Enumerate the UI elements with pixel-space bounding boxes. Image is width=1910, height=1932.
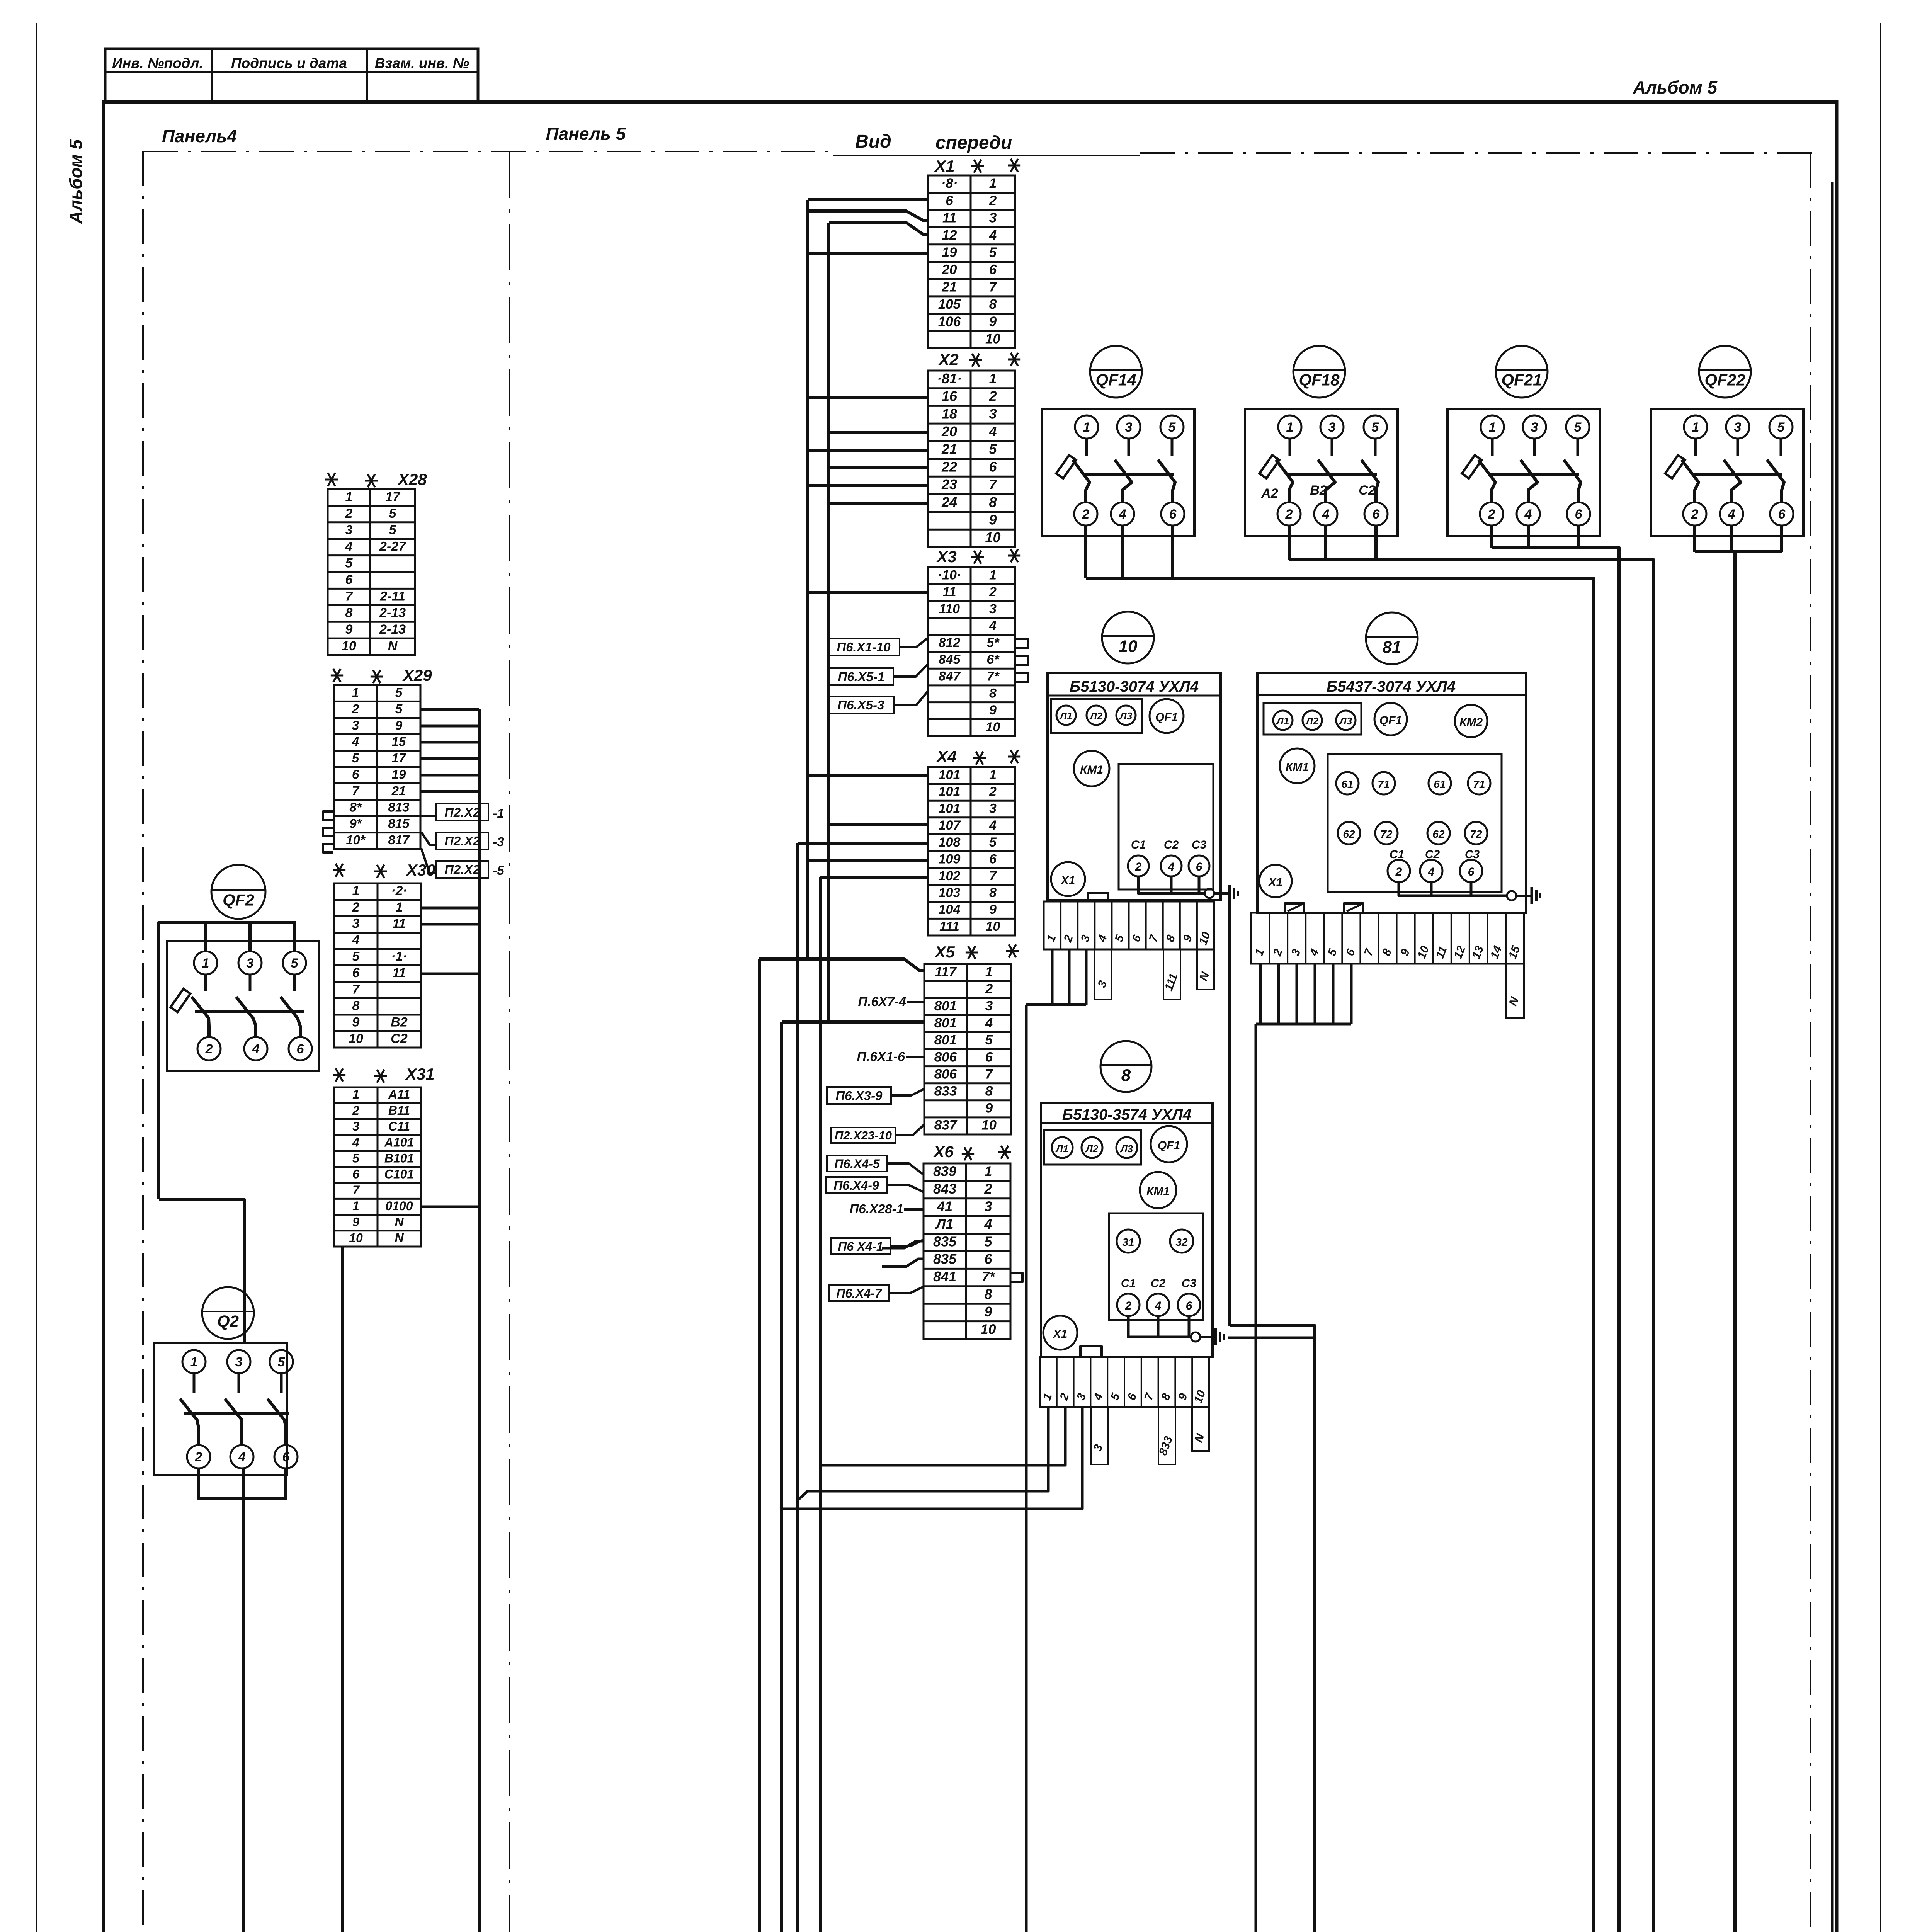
wires device 8 cells 1-3 to trunks — [798, 1407, 1048, 1500]
svg-text:3: 3 — [989, 211, 997, 226]
device 8 tag N — [1192, 1407, 1209, 1451]
svg-text:6: 6 — [352, 767, 359, 782]
device 81 breaker QF1 — [1374, 703, 1407, 735]
svg-text:9: 9 — [345, 622, 353, 637]
device 81 terminal 71a — [1373, 772, 1395, 794]
svg-text:8: 8 — [1121, 1066, 1131, 1085]
svg-text:15: 15 — [392, 735, 406, 749]
svg-text:32: 32 — [1175, 1236, 1188, 1248]
svg-text:КМ1: КМ1 — [1146, 1185, 1170, 1198]
svg-text:4: 4 — [1168, 861, 1175, 873]
svg-text:3: 3 — [989, 801, 997, 816]
QF18 pin 4 — [1314, 502, 1337, 526]
svg-text:6: 6 — [989, 459, 997, 474]
svg-text:107: 107 — [939, 818, 961, 833]
wires QF21 pins down — [1490, 526, 1493, 548]
svg-text:·2·: ·2· — [391, 884, 407, 898]
svg-text:N: N — [388, 639, 398, 653]
terminal table X1 — [928, 175, 1015, 348]
svg-text:Л3: Л3 — [1120, 1143, 1133, 1155]
wire riser to К7 — [819, 877, 822, 1932]
svg-text:·81·: ·81· — [937, 371, 962, 386]
svg-text:3: 3 — [352, 1119, 359, 1133]
device 81 terminal 61b — [1429, 772, 1451, 794]
QF18 pin 3 — [1320, 415, 1344, 439]
wire horizontal from QF22 to 16-Н1 riser — [1695, 550, 1782, 553]
X29 leader tags П2.Х2 — [421, 816, 436, 816]
svg-text:71: 71 — [1378, 778, 1390, 790]
svg-text:5: 5 — [291, 956, 299, 971]
svg-text:С2: С2 — [1151, 1277, 1166, 1290]
terminal table X4 — [928, 767, 1015, 935]
device 10 tag 111 — [1163, 949, 1180, 1000]
branch X2 row5 — [808, 449, 928, 452]
svg-text:101: 101 — [939, 801, 961, 816]
QF21 switch blades — [1478, 460, 1495, 502]
svg-text:Б5130-3574 УХЛ4: Б5130-3574 УХЛ4 — [1062, 1106, 1191, 1123]
svg-text:X1: X1 — [1053, 1328, 1068, 1340]
QF21 pin 1 — [1481, 415, 1504, 439]
svg-text:6: 6 — [1196, 861, 1202, 873]
device 8 tag 833 — [1158, 1407, 1175, 1464]
device 81 strip jumpers — [1285, 903, 1304, 913]
svg-text:12: 12 — [942, 228, 957, 243]
svg-text:3: 3 — [985, 998, 993, 1014]
svg-text:7: 7 — [989, 279, 997, 294]
svg-text:2: 2 — [1488, 507, 1495, 522]
svg-text:10: 10 — [981, 1118, 997, 1133]
branch X5 row1 — [759, 959, 924, 971]
svg-text:4: 4 — [989, 818, 997, 833]
svg-text:61: 61 — [1341, 778, 1353, 790]
svg-text:5: 5 — [395, 702, 403, 716]
svg-text:105: 105 — [938, 297, 961, 312]
wire horizontal H_b from QF18 to 312 riser — [1289, 560, 1654, 1932]
svg-text:5: 5 — [1777, 420, 1785, 435]
wire device 81 cell 4 stub — [1314, 964, 1316, 1024]
svg-text:Б5130-3074 УХЛ4: Б5130-3074 УХЛ4 — [1070, 678, 1199, 695]
svg-text:845: 845 — [939, 652, 961, 667]
svg-text:1: 1 — [1083, 420, 1090, 435]
svg-text:2: 2 — [1691, 507, 1699, 522]
svg-text:7: 7 — [352, 1183, 360, 1197]
svg-text:10*: 10* — [346, 833, 366, 847]
wires QF18 pins down — [1288, 526, 1291, 560]
device 8 terminal 4 — [1147, 1294, 1169, 1316]
svg-text:3: 3 — [989, 602, 997, 616]
branch X4 row1 — [808, 774, 928, 777]
svg-text:17: 17 — [392, 751, 406, 765]
device 81 terminal 62a — [1338, 822, 1360, 844]
svg-text:2-27: 2-27 — [379, 539, 406, 554]
svg-text:24: 24 — [941, 494, 957, 510]
svg-text:6: 6 — [1575, 507, 1583, 522]
device 81 inner unit box — [1328, 754, 1502, 892]
lamp Л2 — [1303, 711, 1322, 730]
svg-text:КМ1: КМ1 — [1080, 764, 1103, 776]
wire trunk A (bundle) — [806, 200, 809, 959]
terminal table X30 — [334, 883, 421, 1048]
device 10 terminal 6 — [1189, 855, 1209, 876]
svg-text:5: 5 — [352, 949, 360, 964]
svg-text:-1: -1 — [493, 806, 504, 820]
svg-text:6: 6 — [1186, 1299, 1192, 1312]
svg-text:С101: С101 — [384, 1167, 414, 1181]
branch X2 row8 — [829, 502, 928, 505]
svg-text:3: 3 — [984, 1198, 992, 1214]
leader tag П6.X5-3 — [828, 696, 894, 713]
device 8 tag 3 — [1091, 1407, 1108, 1464]
svg-text:9: 9 — [395, 718, 403, 732]
svg-text:841: 841 — [933, 1269, 956, 1284]
device 8 strip jumper 3-4 — [1080, 1346, 1102, 1357]
svg-text:6: 6 — [989, 852, 997, 866]
svg-text:10: 10 — [1119, 637, 1138, 656]
terminal table X3 — [928, 567, 1015, 736]
svg-text:QF22: QF22 — [1704, 371, 1745, 389]
svg-text:3: 3 — [235, 1355, 243, 1369]
circuit breaker QF21 balloon — [1496, 346, 1548, 398]
svg-text:Л2: Л2 — [1305, 715, 1319, 727]
svg-text:7*: 7* — [986, 669, 1000, 684]
terminal table X28 header — [325, 473, 338, 486]
svg-text:С2: С2 — [391, 1031, 408, 1046]
device 81 contactor КМ1 — [1280, 748, 1315, 783]
QF22 pin 5 — [1769, 415, 1793, 439]
svg-text:3: 3 — [1328, 420, 1336, 435]
branch X4 row6 — [808, 859, 928, 862]
QF14 pin 5 — [1160, 415, 1184, 439]
svg-text:Взам. инв. №: Взам. инв. № — [375, 55, 469, 71]
svg-text:2: 2 — [988, 388, 997, 404]
svg-text:N: N — [395, 1231, 404, 1245]
svg-text:QF1: QF1 — [1155, 711, 1178, 724]
svg-text:2: 2 — [989, 585, 997, 599]
svg-text:101: 101 — [939, 767, 961, 782]
svg-text:31: 31 — [1122, 1236, 1134, 1248]
svg-text:X5: X5 — [934, 943, 955, 961]
wires QF14 pins down — [1084, 526, 1087, 578]
QF21 pin 3 — [1523, 415, 1546, 439]
svg-text:В101: В101 — [384, 1151, 414, 1165]
svg-text:QF1: QF1 — [1379, 714, 1402, 727]
device balloon 81 — [1366, 612, 1418, 664]
device 10 contactor КМ1 — [1074, 751, 1109, 786]
svg-text:843: 843 — [933, 1181, 956, 1197]
wire device 8 PE to 10-Н1 riser — [1228, 1337, 1315, 1339]
svg-text:19: 19 — [942, 245, 957, 260]
QF18 pin 6 — [1364, 502, 1388, 526]
terminal table X6 — [924, 1163, 1010, 1339]
svg-text:6: 6 — [946, 193, 953, 208]
leader tag П2.Х23-10 — [831, 1128, 896, 1143]
circuit breaker Q2 box — [154, 1343, 287, 1475]
lamp Л1 — [1052, 1137, 1073, 1158]
QF22 pin 1 — [1684, 415, 1707, 439]
svg-text:Альбом 5: Альбом 5 — [1633, 77, 1718, 97]
svg-text:П2.Х2: П2.Х2 — [444, 834, 480, 848]
svg-text:Q2: Q2 — [217, 1312, 239, 1331]
svg-text:QF2: QF2 — [223, 891, 254, 910]
svg-text:6: 6 — [1373, 507, 1380, 522]
wires X30 rows to riser — [422, 907, 479, 910]
branch X1 row4 — [829, 223, 928, 235]
QF22 pin 2 — [1683, 502, 1706, 526]
svg-text:20: 20 — [942, 262, 957, 277]
device 10 breaker QF1 — [1150, 699, 1184, 733]
svg-text:КМ1: КМ1 — [1286, 761, 1309, 774]
lamp Л1 — [1056, 706, 1076, 725]
svg-text:2-13: 2-13 — [379, 622, 406, 637]
wire riser 2023 — [780, 1022, 783, 1932]
svg-text:9: 9 — [989, 314, 997, 329]
svg-text:5: 5 — [989, 835, 997, 850]
svg-text:7: 7 — [989, 476, 997, 492]
lamp Л3 — [1336, 711, 1356, 730]
QF21 pin 4 — [1517, 502, 1540, 526]
svg-text:5: 5 — [984, 1233, 992, 1249]
svg-text:815: 815 — [388, 816, 410, 831]
svg-text:С3: С3 — [1192, 838, 1207, 851]
svg-text:П6.Х3-9: П6.Х3-9 — [836, 1088, 883, 1103]
underline Вид спереди — [833, 155, 1140, 156]
svg-text:X1: X1 — [1060, 874, 1075, 887]
outer sheet border — [36, 23, 37, 1932]
QF14 pin 3 — [1117, 415, 1140, 439]
svg-text:801: 801 — [934, 998, 957, 1014]
svg-text:4: 4 — [984, 1216, 992, 1232]
svg-text:2: 2 — [989, 784, 997, 799]
svg-text:5: 5 — [389, 506, 397, 521]
QF18 pin 2 — [1277, 502, 1301, 526]
branch X2 row2 — [808, 396, 928, 399]
svg-text:2: 2 — [984, 1181, 992, 1197]
leader tag П6.Х3-9 — [827, 1087, 891, 1104]
wire QF2 to Q2 link — [159, 1199, 244, 1343]
svg-text:3: 3 — [352, 917, 360, 931]
svg-text:П2.Х2: П2.Х2 — [444, 805, 480, 820]
wires X6 rows 5-6 from left — [882, 1241, 924, 1248]
terminal table X28 — [328, 489, 415, 655]
svg-text:П2.Х2: П2.Х2 — [444, 862, 480, 877]
svg-text:5: 5 — [278, 1355, 286, 1369]
svg-text:П6.Х4-9: П6.Х4-9 — [833, 1179, 879, 1192]
svg-text:9: 9 — [985, 1101, 993, 1116]
svg-text:839: 839 — [933, 1163, 956, 1179]
svg-text:837: 837 — [934, 1118, 958, 1133]
svg-text:8: 8 — [984, 1286, 992, 1302]
svg-text:847: 847 — [939, 669, 961, 684]
svg-text:5: 5 — [989, 441, 997, 457]
wire riser to 10-К2 — [1025, 1005, 1028, 1932]
svg-text:7*: 7* — [981, 1269, 995, 1284]
svg-text:10: 10 — [342, 639, 356, 653]
svg-text:2: 2 — [352, 1104, 359, 1117]
terminal table X29 — [334, 685, 420, 849]
svg-text:6: 6 — [989, 262, 997, 277]
device 10 terminal 2 — [1128, 855, 1149, 876]
leader tag П6 Х4-1 — [831, 1238, 890, 1254]
svg-text:8: 8 — [345, 605, 353, 620]
svg-text:2: 2 — [195, 1450, 202, 1464]
device 81 tag N — [1506, 964, 1524, 1018]
wire riser to 10-Н1 — [1230, 1326, 1315, 1932]
svg-text:0100: 0100 — [385, 1199, 413, 1213]
svg-text:61: 61 — [1434, 778, 1446, 790]
svg-text:2: 2 — [1395, 866, 1402, 878]
svg-text:С11: С11 — [388, 1119, 410, 1133]
svg-text:1: 1 — [984, 1163, 992, 1179]
svg-text:4: 4 — [1155, 1299, 1162, 1312]
svg-text:7: 7 — [352, 784, 360, 798]
svg-text:4: 4 — [1322, 507, 1330, 522]
lamp Л3 — [1116, 706, 1136, 725]
svg-text:9: 9 — [989, 512, 997, 528]
svg-text:1: 1 — [190, 1355, 198, 1369]
svg-text:5*: 5* — [986, 635, 1000, 650]
svg-text:1: 1 — [989, 767, 997, 782]
QF14 pin 2 — [1074, 502, 1097, 526]
svg-text:4: 4 — [352, 735, 359, 749]
svg-text:2: 2 — [1125, 1299, 1132, 1312]
svg-text:806: 806 — [934, 1066, 957, 1082]
svg-text:9: 9 — [984, 1304, 992, 1320]
svg-text:Панель 5: Панель 5 — [546, 124, 626, 144]
lamp Л2 — [1082, 1137, 1102, 1158]
svg-text:6: 6 — [1468, 866, 1475, 878]
branch X1 row5 — [808, 252, 928, 255]
wire 16-Н1 riser — [1733, 552, 1737, 1932]
svg-text:806: 806 — [934, 1049, 957, 1065]
wire riser to 8-К2 — [758, 959, 761, 1932]
svg-text:72: 72 — [1470, 828, 1482, 840]
Q2 pins 1 3 5 — [182, 1350, 206, 1373]
terminal table X5 — [924, 964, 1011, 1134]
svg-text:102: 102 — [939, 869, 961, 883]
svg-text:19: 19 — [392, 767, 406, 782]
svg-text:Вид: Вид — [855, 131, 891, 152]
svg-text:Инв. №подл.: Инв. №подл. — [112, 55, 203, 71]
svg-text:1: 1 — [396, 900, 403, 915]
svg-text:5: 5 — [352, 1151, 360, 1165]
device 81 terminal 4 — [1420, 860, 1442, 882]
svg-text:С1: С1 — [1121, 1277, 1136, 1290]
wire riser 2065 — [796, 843, 799, 1932]
svg-text:72: 72 — [1380, 828, 1393, 840]
svg-text:2: 2 — [989, 193, 997, 208]
circuit breaker QF14 box — [1042, 409, 1194, 536]
device 8 X1 connector — [1043, 1316, 1077, 1350]
svg-text:3: 3 — [989, 406, 997, 422]
svg-text:9*: 9* — [349, 816, 362, 831]
svg-text:3: 3 — [352, 718, 359, 732]
svg-text:-3: -3 — [493, 835, 504, 849]
svg-text:1: 1 — [989, 176, 997, 191]
terminal table X31 header — [333, 1068, 345, 1082]
cabinet outline top (dash-dot) — [143, 151, 833, 152]
svg-text:9: 9 — [989, 703, 997, 718]
svg-text:4: 4 — [352, 933, 360, 947]
svg-text:2-13: 2-13 — [379, 605, 406, 620]
svg-text:10: 10 — [980, 1321, 996, 1337]
svg-text:Л1: Л1 — [1059, 710, 1072, 722]
branch X3 row2 — [808, 591, 928, 594]
device 81 terminal 71b — [1468, 772, 1490, 794]
svg-text:X28: X28 — [397, 470, 427, 488]
svg-text:Подпись и дата: Подпись и дата — [231, 55, 347, 71]
svg-text:Альбом 5: Альбом 5 — [66, 139, 86, 224]
circuit breaker QF22 balloon — [1699, 346, 1751, 398]
svg-text:7: 7 — [989, 869, 997, 883]
svg-text:X6: X6 — [933, 1143, 954, 1161]
device box 8 Б5130-3574 УХЛ4 — [1041, 1103, 1213, 1357]
svg-text:X2: X2 — [938, 350, 958, 369]
svg-text:7: 7 — [352, 982, 361, 997]
svg-text:103: 103 — [939, 886, 961, 900]
svg-text:Л1: Л1 — [1055, 1143, 1068, 1155]
svg-text:1: 1 — [989, 371, 997, 386]
device 8 terminal 31 — [1117, 1230, 1140, 1253]
svg-text:X1: X1 — [1268, 876, 1283, 889]
svg-text:X1: X1 — [934, 157, 954, 175]
svg-text:817: 817 — [388, 833, 410, 847]
X6 connector stub row 7 — [1011, 1273, 1022, 1282]
svg-text:833: 833 — [934, 1083, 957, 1099]
svg-text:5: 5 — [395, 685, 403, 700]
svg-text:1: 1 — [352, 685, 359, 700]
svg-text:QF18: QF18 — [1299, 371, 1340, 389]
svg-text:2: 2 — [352, 702, 359, 716]
QF2 pins 1 3 5 — [194, 951, 217, 975]
svg-text:6: 6 — [985, 1049, 993, 1065]
svg-text:3: 3 — [247, 956, 254, 971]
device 8 terminal 2 — [1117, 1294, 1140, 1316]
terminal table X30 header — [333, 864, 345, 877]
svg-text:101: 101 — [939, 784, 961, 799]
svg-text:-5: -5 — [493, 863, 504, 878]
QF18 pin 5 — [1364, 415, 1387, 439]
svg-text:QF21: QF21 — [1501, 371, 1542, 389]
svg-text:3: 3 — [345, 523, 353, 537]
branch X4 row5 — [798, 842, 928, 845]
svg-text:QF14: QF14 — [1095, 371, 1136, 389]
lamp Л1 — [1273, 711, 1293, 730]
wires QF22 pins down — [1693, 526, 1696, 552]
wires X29 rows to riser — [421, 708, 479, 711]
branch X4 row4 — [829, 823, 928, 826]
svg-text:1: 1 — [202, 956, 209, 971]
svg-text:2: 2 — [1082, 507, 1090, 522]
svg-text:9: 9 — [352, 1015, 360, 1030]
device 81 terminal strip — [1251, 913, 1524, 964]
circuit breaker QF18 balloon — [1293, 346, 1345, 398]
QF14 switch blades — [1073, 460, 1090, 502]
svg-text:QF1: QF1 — [1158, 1139, 1180, 1152]
svg-text:4: 4 — [252, 1042, 260, 1056]
svg-text:П6.X5-1: П6.X5-1 — [838, 670, 885, 684]
svg-text:С2: С2 — [1359, 483, 1376, 498]
svg-text:108: 108 — [939, 835, 961, 850]
svg-text:Л2: Л2 — [1089, 710, 1103, 722]
svg-text:11: 11 — [942, 585, 956, 599]
svg-text:5: 5 — [1372, 420, 1379, 435]
svg-text:С3: С3 — [1182, 1277, 1197, 1290]
QF2 pins 2 4 6 — [197, 1037, 221, 1060]
svg-text:А11: А11 — [388, 1088, 410, 1102]
wire horizontal from QF21 to 14-Н1 riser — [1492, 548, 1619, 1932]
svg-text:Л2: Л2 — [1085, 1143, 1099, 1155]
svg-text:812: 812 — [939, 635, 961, 650]
